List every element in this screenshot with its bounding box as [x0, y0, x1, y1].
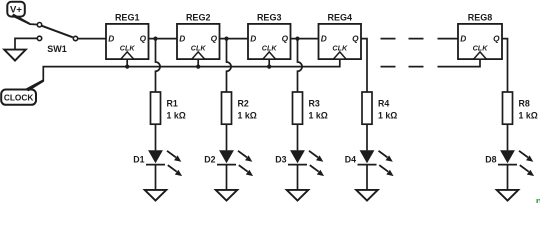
svg-text:D: D — [250, 34, 256, 44]
resistor R2 — [222, 92, 232, 124]
wire CLOCK to clock bus — [25, 59, 340, 91]
svg-text:CLK: CLK — [120, 44, 136, 53]
svg-text:D: D — [321, 34, 327, 44]
LED D2 light emission arrows — [238, 151, 253, 176]
switch SW1 throw contact (V+) — [37, 23, 41, 27]
svg-text:R8: R8 — [519, 98, 530, 108]
node Q2 junction — [224, 37, 228, 41]
wire R2 to D2 anode — [226, 124, 228, 150]
svg-text:m: m — [536, 196, 540, 204]
LED D1 light emission arrows — [167, 151, 182, 176]
wire clock bus to REG8 CLK — [438, 59, 481, 67]
switch SW1 blade — [42, 26, 73, 38]
wire D8 cathode to ground — [507, 165, 509, 190]
resistor R1 — [151, 92, 161, 124]
svg-text:1 kΩ: 1 kΩ — [238, 110, 257, 120]
svg-text:1 kΩ: 1 kΩ — [167, 110, 186, 120]
LED D8 (diode triangle) — [500, 150, 515, 163]
wire Q1 junction down to R1 (hops over clock bus) — [156, 39, 161, 92]
wire D4 cathode to ground — [366, 165, 368, 190]
REG8 pin CLK (edge-triggered marker) — [473, 44, 489, 60]
svg-text:1 kΩ: 1 kΩ — [309, 110, 328, 120]
svg-text:REG4: REG4 — [328, 13, 353, 23]
wire V+ to SW1 — [12, 14, 38, 26]
ground (D4) — [356, 190, 378, 201]
D flip-flop REG2 body — [177, 24, 220, 59]
svg-text:REG8: REG8 — [468, 13, 493, 23]
svg-text:SW1: SW1 — [47, 44, 67, 54]
svg-text:REG3: REG3 — [257, 13, 282, 23]
resistor R4 — [362, 92, 372, 124]
wire (dashed continuation) clock bus toward REG8 — [381, 66, 424, 68]
svg-text:D3: D3 — [275, 155, 286, 165]
D flip-flop REG3 body — [248, 24, 291, 59]
svg-text:Q: Q — [211, 34, 218, 44]
switch SW1 throw contact (ground) — [37, 36, 41, 40]
wire R3 to D3 anode — [297, 124, 299, 150]
wire D1 cathode to ground — [155, 165, 157, 190]
svg-text:D4: D4 — [345, 155, 356, 165]
svg-text:D2: D2 — [204, 155, 215, 165]
svg-text:D8: D8 — [485, 155, 496, 165]
LED D4 light emission arrows — [379, 151, 394, 176]
LED D3 (diode triangle) — [290, 150, 305, 163]
REG1 pin CLK (edge-triggered marker) — [120, 44, 136, 60]
svg-text:R1: R1 — [167, 98, 178, 108]
svg-text:R2: R2 — [238, 98, 249, 108]
svg-text:D: D — [108, 34, 114, 44]
svg-text:CLK: CLK — [332, 44, 348, 53]
svg-text:Q: Q — [352, 34, 359, 44]
svg-text:R3: R3 — [309, 98, 320, 108]
LED D4 cathode bar — [358, 164, 377, 166]
svg-text:CLK: CLK — [473, 44, 489, 53]
switch SW1 common contact — [73, 36, 77, 40]
svg-text:D: D — [460, 34, 466, 44]
svg-text:CLOCK: CLOCK — [4, 93, 34, 103]
wire Q2 junction down to R2 (hops over clock bus) — [227, 39, 232, 92]
ground (D2) — [216, 190, 238, 201]
wire REG4 Q down to R4 — [361, 39, 367, 92]
svg-text:R4: R4 — [378, 98, 389, 108]
wire REG8 Q down to R8 — [502, 39, 508, 92]
LED D3 light emission arrows — [309, 151, 324, 176]
svg-text:D: D — [179, 34, 185, 44]
wire clock bus to REG3 CLK — [268, 59, 270, 67]
D flip-flop REG4 body — [319, 24, 362, 59]
REG2 pin CLK (edge-triggered marker) — [191, 44, 207, 60]
LED D1 cathode bar — [146, 164, 165, 166]
clock source label CLOCK — [1, 90, 36, 105]
resistor R8 — [503, 92, 513, 124]
D flip-flop REG8 body — [458, 24, 502, 59]
resistor R3 — [293, 92, 303, 124]
REG4 pin CLK (edge-triggered marker) — [332, 44, 348, 60]
svg-text:1 kΩ: 1 kΩ — [378, 110, 397, 120]
svg-text:CLK: CLK — [191, 44, 207, 53]
svg-text:Q: Q — [282, 34, 289, 44]
LED D3 cathode bar — [288, 164, 307, 166]
wire SW1 common to REG1 D input — [78, 38, 106, 40]
svg-text:1 kΩ: 1 kΩ — [519, 110, 538, 120]
wire R8 to D8 anode — [507, 124, 509, 150]
LED D2 cathode bar — [217, 164, 236, 166]
ground (D1) — [145, 190, 167, 201]
LED D2 (diode triangle) — [219, 150, 234, 163]
wire D2 cathode to ground — [226, 165, 228, 190]
power label V+ — [7, 2, 25, 17]
node clock junction at REG3 — [267, 65, 271, 69]
LED D8 cathode bar — [498, 164, 517, 166]
D flip-flop REG1 body — [106, 24, 149, 59]
wire (dashed continuation) REG4 Q toward REG8 D — [381, 38, 459, 40]
wire R4 to D4 anode — [366, 124, 368, 150]
wire clock bus to REG2 CLK — [197, 59, 199, 67]
node Q3 junction — [295, 37, 299, 41]
ground (D3) — [287, 190, 309, 201]
LED D1 (diode triangle) — [148, 150, 163, 163]
svg-text:D1: D1 — [133, 155, 144, 165]
wire D3 cathode to ground — [297, 165, 299, 190]
LED D4 (diode triangle) — [360, 150, 375, 163]
node Q1 junction — [153, 37, 157, 41]
REG3 pin CLK (edge-triggered marker) — [262, 44, 278, 60]
wire REG3 Q to REG4 D — [291, 38, 319, 40]
node clock junction at REG1 — [125, 65, 129, 69]
wire clock bus to REG1 CLK — [126, 59, 128, 67]
wire R1 to D1 anode — [155, 124, 157, 150]
ground (switch) — [4, 50, 26, 61]
svg-text:CLK: CLK — [262, 44, 278, 53]
svg-text:V+: V+ — [10, 5, 22, 16]
ground (D8) — [497, 190, 519, 201]
wire SW1 to ground — [15, 38, 37, 49]
svg-text:Q: Q — [493, 34, 500, 44]
wire REG1 Q to REG2 D — [149, 38, 178, 40]
svg-text:REG1: REG1 — [115, 13, 140, 23]
wire REG2 Q to REG3 D — [220, 38, 249, 40]
svg-text:Q: Q — [140, 34, 147, 44]
svg-text:REG2: REG2 — [186, 13, 211, 23]
node clock junction at REG2 — [196, 65, 200, 69]
wire Q3 junction down to R3 (hops over clock bus) — [298, 39, 303, 92]
LED D8 light emission arrows — [519, 151, 534, 176]
